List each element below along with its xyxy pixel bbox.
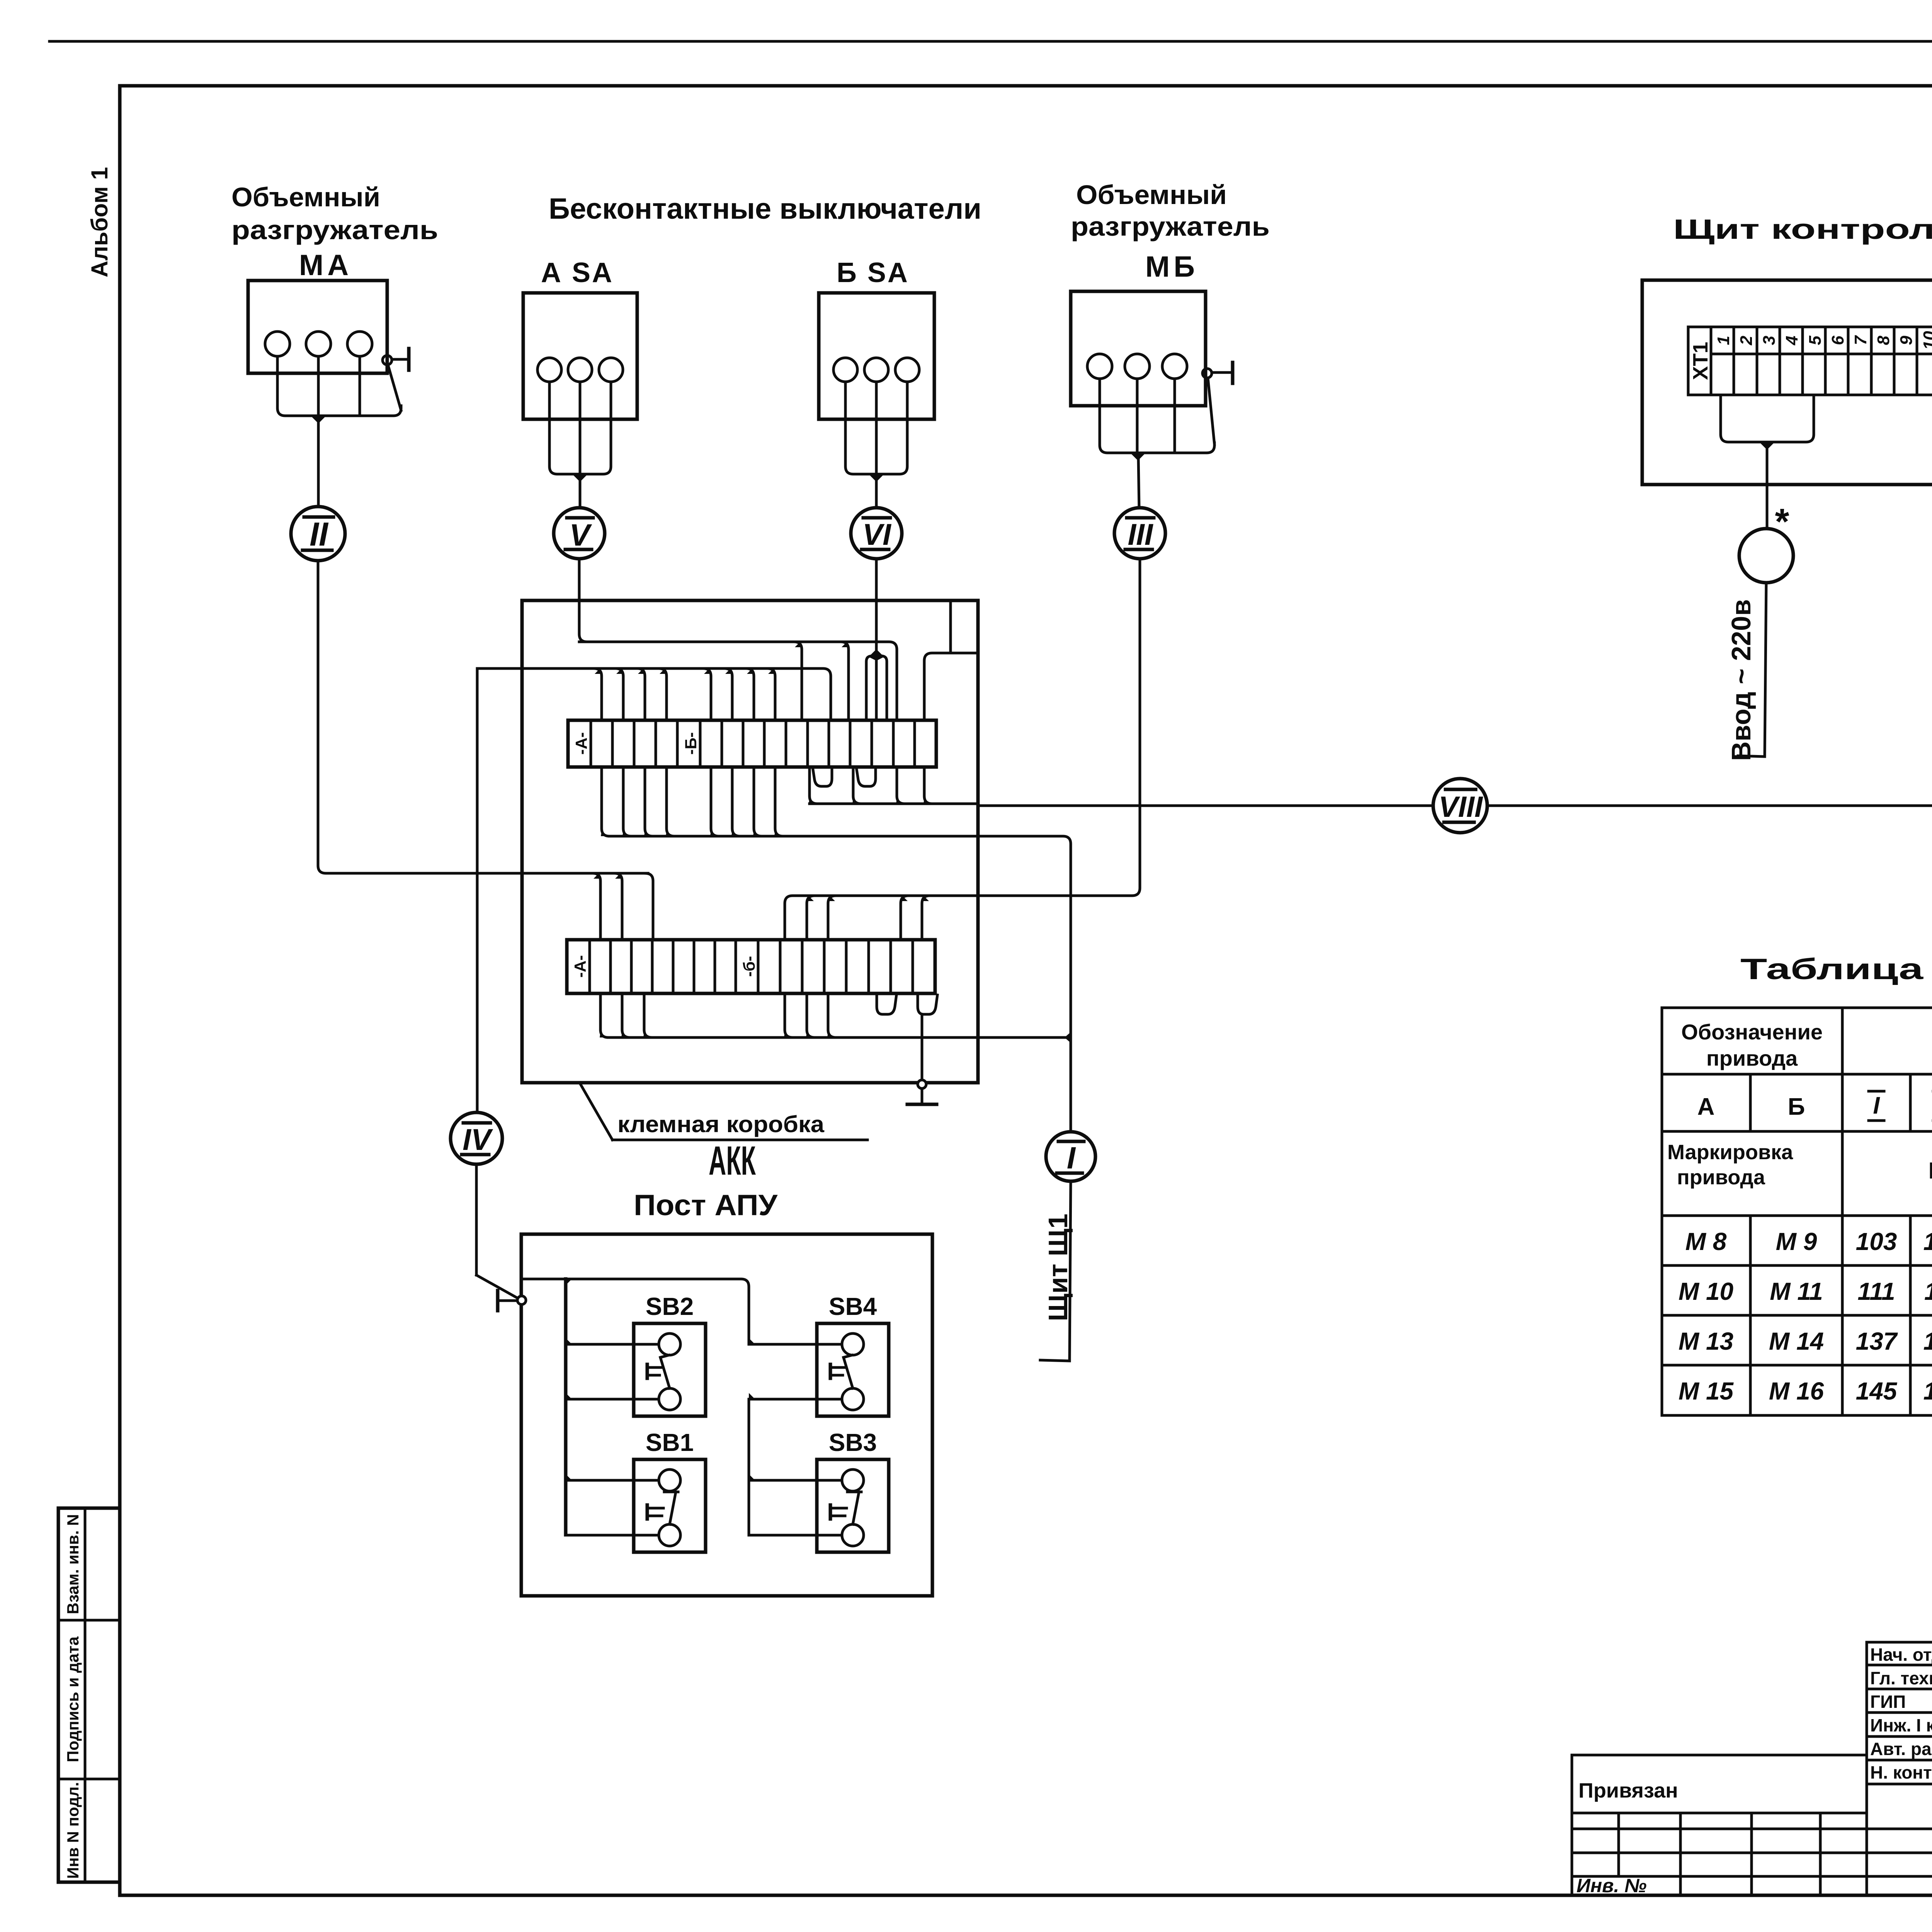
wire tap xyxy=(637,668,645,720)
svg-text:Н. контр.: Н. контр. xyxy=(1870,1762,1932,1782)
wire tap xyxy=(785,993,793,1037)
svg-text:разгружатель: разгружатель xyxy=(1071,211,1270,241)
wire SB4 connections xyxy=(749,1343,842,1346)
wire cable VI gather into upper strip xyxy=(866,655,876,720)
wire V down into AKK xyxy=(579,559,854,642)
cable II circle xyxy=(291,507,345,561)
svg-text:8: 8 xyxy=(1874,335,1893,345)
wire bus lower strip join xyxy=(608,1036,1071,1039)
svg-text:1: 1 xyxy=(1714,336,1733,345)
svg-text:104: 104 xyxy=(1923,1228,1932,1255)
svg-text:111: 111 xyxy=(1857,1277,1895,1305)
correspondence table xyxy=(1662,1008,1932,1415)
wire tap xyxy=(807,993,815,1037)
svg-text:I: I xyxy=(1067,1141,1076,1175)
svg-text:I: I xyxy=(1873,1092,1880,1119)
wire tap xyxy=(853,767,861,804)
svg-text:Инж. I к.: Инж. I к. xyxy=(1870,1715,1932,1735)
svg-text:-А-: -А- xyxy=(571,955,589,978)
svg-text:SB2: SB2 xyxy=(646,1293,694,1320)
svg-text:IV: IV xyxy=(463,1122,493,1156)
svg-text:МА: МА xyxy=(299,249,352,282)
svg-text:Таблица соответствия: Таблица соответствия xyxy=(1740,953,1932,986)
wire tap xyxy=(775,767,783,836)
svg-text:Бесконтактные выключатели: Бесконтактные выключатели xyxy=(549,192,981,225)
svg-text:АКК: АКК xyxy=(709,1138,756,1184)
wire A SA to cable V xyxy=(579,478,582,507)
mains input circle xyxy=(1739,529,1793,583)
wire tap xyxy=(667,767,674,836)
wire cable VIII from XT2 xyxy=(978,444,1932,806)
wire tap xyxy=(924,767,932,804)
MB actuator pivot xyxy=(1202,369,1212,378)
svg-text:7: 7 xyxy=(1851,335,1870,345)
APU box xyxy=(521,1234,932,1596)
switch A SA box xyxy=(523,293,637,419)
svg-text:6: 6 xyxy=(1828,335,1847,345)
svg-text:146: 146 xyxy=(1923,1377,1932,1405)
label klemnaya korobka xyxy=(580,1083,612,1140)
svg-text:М 15: М 15 xyxy=(1679,1377,1734,1405)
svg-text:-б-: -б- xyxy=(740,956,758,977)
svg-text:М 13: М 13 xyxy=(1679,1327,1733,1355)
wire SB2 connections xyxy=(566,1343,659,1346)
svg-text:SB3: SB3 xyxy=(829,1429,877,1456)
MA cable gather wires xyxy=(277,356,401,416)
svg-text:Нач. отд.: Нач. отд. xyxy=(1870,1645,1932,1665)
svg-text:VI: VI xyxy=(862,517,891,551)
svg-text:привода: привода xyxy=(1677,1166,1765,1189)
ground symbol xyxy=(921,1088,923,1104)
wire IV down to APU xyxy=(475,1164,478,1275)
jumper loops below upper strip xyxy=(813,767,832,786)
wire tap xyxy=(622,993,630,1037)
svg-text:II: II xyxy=(310,516,329,553)
MA actuator pivot xyxy=(383,355,392,365)
panel ASchK box xyxy=(1642,280,1932,485)
jumper loops below lower strip xyxy=(877,993,896,1014)
svg-text:5: 5 xyxy=(1806,335,1825,345)
svg-text:Маркировка: Маркировка xyxy=(1667,1141,1793,1164)
svg-text:Ввод ~ 220в: Ввод ~ 220в xyxy=(1726,599,1756,761)
wire input 220V stub xyxy=(1765,583,1766,757)
wire tap xyxy=(602,767,609,836)
wire III down to AKK lower strip xyxy=(922,559,1140,896)
wire MB to cable III xyxy=(1138,457,1139,508)
svg-text:3: 3 xyxy=(1760,336,1779,345)
wire tap xyxy=(807,896,815,940)
A SA terminal circles xyxy=(537,358,561,382)
svg-text:III: III xyxy=(1128,517,1153,551)
cable VI circle xyxy=(851,508,902,559)
B SA cable gather wires xyxy=(845,382,907,474)
svg-text:Б SA: Б SA xyxy=(837,257,909,288)
svg-text:-А-: -А- xyxy=(572,732,590,755)
wire bus upper strip to cable VIII xyxy=(810,803,978,805)
unloader MA box xyxy=(248,281,387,373)
wire cable V bus into upper strip xyxy=(579,642,897,720)
switch B SA box xyxy=(819,293,934,419)
wire MA to cable II xyxy=(317,420,320,506)
wire tap xyxy=(600,993,608,1037)
svg-text:137: 137 xyxy=(1856,1327,1898,1355)
svg-text:VIII: VIII xyxy=(1439,791,1483,823)
MB cable gather wires xyxy=(1100,379,1214,453)
wire tap xyxy=(828,896,836,940)
jumper loop upper right xyxy=(924,653,978,720)
MA terminal circles xyxy=(265,332,290,356)
wire tap xyxy=(746,668,754,720)
left sidebar stamp xyxy=(58,1508,120,1882)
wire tap xyxy=(841,642,849,720)
svg-text:2: 2 xyxy=(1737,335,1756,345)
APU entry switch pivot xyxy=(476,1275,519,1299)
svg-text:Щит контроля и управл: Щит контроля и управления АЩК xyxy=(1673,214,1932,245)
wire tap xyxy=(732,767,740,836)
wire tap xyxy=(623,767,631,836)
svg-text:привода: привода xyxy=(1706,1046,1798,1070)
svg-text:Пост АПУ: Пост АПУ xyxy=(634,1189,778,1222)
svg-text:*: * xyxy=(1775,501,1789,542)
svg-text:М 8: М 8 xyxy=(1685,1228,1727,1255)
cable V circle xyxy=(554,508,605,559)
svg-text:М 11: М 11 xyxy=(1770,1277,1823,1305)
svg-text:112: 112 xyxy=(1924,1277,1932,1305)
svg-text:Щит Щ1: Щит Щ1 xyxy=(1043,1214,1073,1321)
wire tap xyxy=(901,896,908,940)
svg-text:9: 9 xyxy=(1897,335,1916,345)
svg-text:SB4: SB4 xyxy=(829,1293,877,1320)
wire cable II bus into lower strip xyxy=(645,873,653,940)
wire tap xyxy=(711,767,719,836)
svg-text:-Б-: -Б- xyxy=(682,732,700,755)
wire cable III bus into lower strip xyxy=(785,896,922,940)
wire SB1 connections xyxy=(566,1479,659,1482)
label volumetric unloader MA xyxy=(231,182,438,282)
svg-text:145: 145 xyxy=(1856,1377,1898,1405)
AKK upper terminal strip xyxy=(568,720,936,767)
wire tap xyxy=(594,668,602,720)
svg-text:ХТ1: ХТ1 xyxy=(1689,342,1712,380)
wire cable IV vertical xyxy=(476,668,479,1112)
wire tap xyxy=(616,668,623,720)
svg-text:Гл. техн.: Гл. техн. xyxy=(1870,1668,1932,1688)
svg-text:А SA: А SA xyxy=(541,257,614,288)
cable VIII circle xyxy=(1433,779,1487,833)
wire tap xyxy=(767,668,775,720)
wire tap xyxy=(659,668,667,720)
svg-text:разгружатель: разгружатель xyxy=(231,215,438,245)
svg-text:М 16: М 16 xyxy=(1769,1377,1824,1405)
wire tap xyxy=(922,896,930,940)
wire stub to box top xyxy=(949,600,952,653)
svg-text:Б: Б xyxy=(1788,1094,1805,1120)
wire bus upper strip to cable I xyxy=(609,836,1071,1132)
svg-text:103: 103 xyxy=(1856,1228,1897,1255)
cable III circle xyxy=(1114,508,1165,559)
wire tap xyxy=(644,993,652,1037)
title block xyxy=(1572,1642,1932,1895)
svg-text:М 14: М 14 xyxy=(1769,1327,1824,1355)
A SA cable gather wires xyxy=(549,382,611,474)
svg-text:Инв. №: Инв. № xyxy=(1577,1875,1646,1896)
wire tap xyxy=(703,668,711,720)
wire II down to AKK xyxy=(318,561,648,873)
svg-text:М 9: М 9 xyxy=(1776,1228,1817,1255)
wire cable IV bus into upper strip xyxy=(477,668,831,720)
unloader MB box xyxy=(1071,291,1206,406)
label volumetric unloader MB xyxy=(1071,180,1270,283)
svg-text:Объемный: Объемный xyxy=(231,182,380,212)
cable IV circle xyxy=(451,1112,502,1164)
svg-text:138: 138 xyxy=(1923,1327,1932,1355)
terminal strip XT1 XT2 XT3 xyxy=(1688,327,1932,395)
svg-text:4: 4 xyxy=(1782,336,1801,345)
cable I circle xyxy=(1046,1132,1095,1181)
wire VI down into AKK xyxy=(875,559,878,654)
wire tap xyxy=(897,767,905,804)
wire tap xyxy=(645,767,653,836)
svg-text:Привязан: Привязан xyxy=(1578,1779,1678,1802)
wire tap xyxy=(724,668,732,720)
svg-text:М 10: М 10 xyxy=(1679,1277,1733,1305)
wire tap xyxy=(828,993,836,1037)
svg-text:Объемный: Объемный xyxy=(1076,180,1227,210)
wire tap xyxy=(593,873,600,940)
AKK lower terminal strip xyxy=(567,940,935,993)
wire APU distribution xyxy=(522,1279,749,1344)
ground wire xyxy=(921,1014,923,1080)
wire I to panel Sch1 xyxy=(1070,1181,1071,1361)
svg-text:Альбом 1: Альбом 1 xyxy=(87,167,112,277)
svg-text:А: А xyxy=(1697,1094,1715,1120)
wire B SA to cable VI xyxy=(875,478,878,508)
svg-text:Взам. инв. N: Взам. инв. N xyxy=(64,1514,82,1614)
wire SB3 connections xyxy=(749,1479,842,1482)
svg-text:Обозначение: Обозначение xyxy=(1681,1020,1823,1044)
terminal box AKK outline xyxy=(522,600,978,1083)
wire tap xyxy=(614,873,622,940)
svg-text:10: 10 xyxy=(1920,331,1932,350)
MB terminal circles xyxy=(1087,354,1112,379)
ground node circle xyxy=(918,1080,926,1088)
wire tap xyxy=(794,642,802,720)
svg-text:МБ: МБ xyxy=(1145,250,1199,283)
wire tap xyxy=(810,767,817,804)
cable gather from XT1 xyxy=(1721,395,1814,442)
wire tap xyxy=(754,767,762,836)
svg-text:клемная коробка: клемная коробка xyxy=(617,1111,825,1137)
svg-text:Маркировка кабеля: Маркировка кабеля xyxy=(1929,1158,1932,1184)
svg-text:SB1: SB1 xyxy=(646,1429,694,1456)
svg-text:Инв N подл.: Инв N подл. xyxy=(64,1782,82,1879)
svg-text:Подпись и дата: Подпись и дата xyxy=(64,1636,82,1762)
wire XT1 to input circle xyxy=(1766,446,1769,529)
B SA terminal circles xyxy=(833,358,857,382)
svg-text:Авт. разд: Авт. разд xyxy=(1870,1739,1932,1759)
svg-text:V: V xyxy=(569,518,592,552)
svg-text:ГИП: ГИП xyxy=(1870,1692,1906,1712)
